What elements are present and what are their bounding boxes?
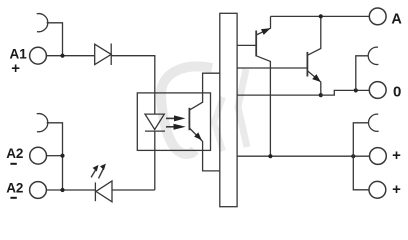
optocoupler LED triangle — [145, 114, 164, 129]
LED1 light arrow a — [91, 170, 96, 178]
transistor Q2 emitter arrowhead — [312, 74, 321, 82]
diode D1 triangle — [95, 44, 112, 64]
terminal A1 — [30, 47, 47, 64]
svg-text:0: 0 — [393, 83, 401, 100]
wire arc to 0 rail — [356, 56, 369, 91]
wire A1 to diode — [46, 55, 94, 57]
wire arc1 to junction — [47, 23, 63, 56]
optocoupler phototransistor bar — [188, 108, 190, 130]
label minus under A2 upper — [10, 163, 16, 165]
watermark swoosh C — [161, 66, 212, 154]
transistor Q2 bar — [306, 52, 308, 77]
node plus rail bridge junction — [351, 154, 355, 158]
svg-text:A2: A2 — [6, 146, 23, 161]
wire arc plus down to lower plus — [353, 123, 369, 190]
node junction A1/bridge — [60, 54, 64, 58]
wire optocoupler LED cathode down — [154, 131, 156, 190]
node junction A2 lower — [60, 188, 64, 192]
terminal A2 upper — [30, 147, 47, 164]
wire 0 jog — [321, 90, 370, 95]
label minus under A2 lower — [10, 197, 16, 199]
bridge contact arc above 0 — [368, 47, 378, 64]
terminal A2 lower — [30, 182, 47, 199]
diode D1 cathode bar — [110, 44, 112, 66]
bridge contact arc above plus — [369, 114, 379, 131]
transistor Q1 base wire — [237, 44, 256, 46]
node bridge 0 junction — [354, 88, 358, 92]
svg-text:+: + — [11, 60, 20, 77]
terminal plus lower — [369, 181, 386, 198]
top rail wire to terminal A — [271, 15, 370, 17]
node junction A2 upper — [60, 154, 64, 158]
LED1 cathode bar — [94, 182, 96, 201]
rail plus from driver — [237, 155, 369, 157]
svg-text:A2: A2 — [6, 180, 23, 195]
wire A2 upper to junction — [47, 155, 63, 157]
transistor Q2 collector — [307, 16, 320, 55]
svg-text:+: + — [392, 181, 401, 198]
wire arc2 down — [47, 123, 63, 190]
optocoupler U1 box — [137, 93, 210, 150]
optocoupler emitter arrowhead — [194, 132, 202, 140]
wire A2 lower to LED — [46, 189, 95, 191]
node Q1 collector on plus rail — [268, 154, 272, 158]
optocoupler light arrow a — [166, 117, 175, 119]
terminal A — [369, 8, 386, 25]
wire LED to optocoupler cathode — [112, 189, 155, 191]
watermark chevron small — [214, 97, 223, 151]
optocoupler phototransistor collector — [189, 73, 219, 110]
optocoupler LED cathode bar — [145, 130, 165, 132]
transistor Q2 base wire — [237, 67, 307, 69]
optocoupler light arrow b — [166, 126, 175, 128]
transistor Q1 bar — [255, 31, 257, 57]
wire diode to corner down to optocoupler — [111, 56, 155, 114]
rail 0 from driver — [237, 94, 321, 96]
transistor Q1 collector down — [256, 56, 270, 156]
transistor Q2 emitter — [307, 71, 320, 95]
watermark chevron large — [238, 69, 247, 147]
node Q2 emitter junction — [319, 93, 323, 97]
transistor Q1 emitter arrowhead — [261, 28, 271, 35]
bridge contact arc top-left — [37, 14, 48, 32]
svg-text:+: + — [392, 147, 401, 164]
optocoupler phototransistor emitter — [189, 128, 219, 171]
terminal 0 — [369, 82, 386, 99]
terminal plus upper — [370, 148, 387, 165]
node Q2 collector on rail — [319, 14, 323, 18]
transistor Q1 emitter to top rail — [256, 16, 270, 35]
svg-text:A: A — [391, 11, 402, 27]
bridge contact arc left A2 — [37, 114, 48, 132]
LED1 indicator triangle — [96, 181, 112, 202]
driver block rectangle — [220, 13, 237, 206]
LED1 light arrow b — [99, 169, 104, 178]
